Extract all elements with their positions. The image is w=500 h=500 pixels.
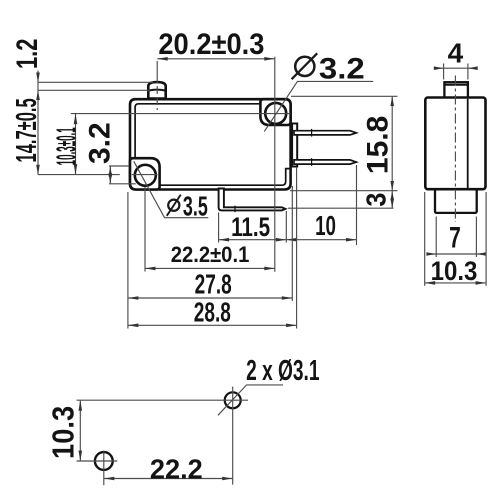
svg-text:22.2±0.1: 22.2±0.1	[171, 242, 250, 267]
svg-text:20.2±0.3: 20.2±0.3	[158, 28, 264, 61]
svg-text:15.8: 15.8	[361, 116, 394, 174]
svg-text:28.8: 28.8	[194, 297, 231, 329]
svg-text:11.5: 11.5	[231, 213, 270, 243]
svg-text:1.2: 1.2	[10, 39, 44, 69]
svg-text:7: 7	[449, 222, 461, 254]
svg-text:3: 3	[360, 193, 392, 207]
svg-text:22.2: 22.2	[150, 453, 203, 484]
svg-text:10.3: 10.3	[47, 406, 81, 459]
svg-text:27.8: 27.8	[195, 269, 232, 301]
svg-text:10.3: 10.3	[431, 257, 478, 287]
svg-text:14.7±0.5: 14.7±0.5	[12, 98, 44, 162]
svg-text:2 x Ø3.1: 2 x Ø3.1	[246, 355, 319, 387]
svg-text:4: 4	[448, 37, 464, 68]
svg-text:10: 10	[315, 210, 336, 242]
svg-text:10.3±0.1: 10.3±0.1	[51, 127, 82, 165]
svg-text:3.2: 3.2	[83, 122, 116, 164]
svg-text:3.5: 3.5	[183, 191, 208, 222]
svg-text:3.2: 3.2	[319, 51, 365, 85]
